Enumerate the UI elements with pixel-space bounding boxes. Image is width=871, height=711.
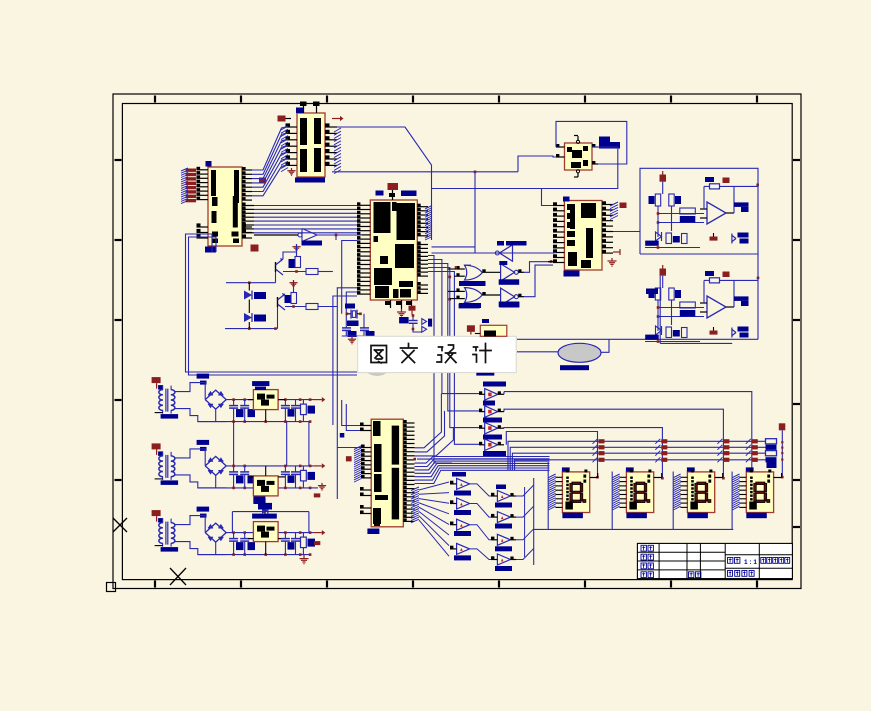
common rail vertical [533, 478, 535, 565]
crystal label bars [345, 304, 355, 309]
resistor low outline b [682, 328, 688, 338]
U4 right pins [602, 204, 613, 206]
capacitor C2 [345, 326, 347, 328]
DS3 digit 8 segments [697, 482, 706, 485]
wire row3 top link [232, 511, 309, 513]
wire inv4 output to display1 [498, 444, 504, 446]
frame corner square bottom-left [107, 583, 116, 592]
wire Q1 collector [283, 252, 297, 259]
diode pair D3 D4 [422, 319, 427, 325]
label blue L right of opamp [734, 296, 749, 301]
capacitor C1 maroon at U1 top-left [278, 116, 286, 122]
capacitor maroon above U3 [388, 183, 399, 190]
wire bus U2 to U3 eight horizontals [254, 205, 357, 207]
output capacitors T1 [284, 400, 286, 406]
title label scale [728, 558, 733, 564]
wire feedback loop [704, 185, 710, 187]
DS2 bottom-left blob [629, 502, 637, 510]
DS2 top body pins [630, 470, 633, 473]
DS4 left pins [739, 476, 746, 478]
wire bottom rail [645, 341, 700, 343]
DS2 label bar top [626, 467, 634, 471]
wire feed U4 pin1 from clock net [542, 189, 554, 206]
transistor symbol low [732, 235, 736, 238]
title label check row2 [641, 554, 646, 560]
drawing frame inner border [122, 104, 792, 580]
label bar left of block2 [646, 289, 658, 295]
power arrow output T1 [314, 399, 322, 401]
7-segment display DS1 body [562, 472, 589, 513]
DS4 left hatch [733, 474, 740, 478]
transistor Q1 [275, 262, 277, 272]
wire fan from U11 to transistor drivers [419, 482, 449, 490]
designator square left [340, 433, 345, 438]
wire CPU left long vertical 1 [333, 296, 357, 425]
transformer T3 [152, 510, 161, 516]
filter capacitors T2 left [233, 466, 235, 472]
resistor R horizontal at Q2 base [306, 304, 318, 310]
DS2 right dashes [647, 475, 650, 478]
U2 right pins upper [242, 169, 252, 171]
wire U5 output to bus [432, 147, 618, 189]
U2 right pins mid [242, 205, 254, 207]
wire ellipse right [601, 339, 609, 352]
U3 left pins [357, 204, 370, 206]
DS3 left hatch [674, 474, 681, 478]
U2 label bar bottom-left [205, 247, 216, 253]
wire from analog rail down-left [225, 282, 227, 284]
7-segment display DS4 body [746, 472, 773, 513]
wire U5 feedback box [556, 121, 627, 164]
U5 top clock pin with circle [577, 136, 579, 141]
crystal Y1 [347, 313, 351, 315]
wire block2 right vertical to bus [757, 278, 759, 339]
resistor low outline [666, 327, 672, 338]
maroon square above U2 right [259, 178, 266, 184]
wire into U11 left from top verticals [342, 400, 360, 426]
wire horizontal to opamp [658, 307, 704, 309]
U11 pin name text blobs [373, 421, 381, 436]
net label above T3 [197, 507, 210, 512]
digit driver inverter V2 [485, 406, 498, 418]
DS1 top body pins [566, 470, 569, 473]
wire bottom rail T3 [198, 554, 310, 556]
DS4 label bar top [746, 467, 754, 471]
logo caption blue text bar [560, 365, 589, 370]
7-segment display DS3 body [687, 472, 714, 513]
U3 top pin [392, 190, 394, 200]
transformer T1 bottom bar [161, 414, 179, 419]
frame tick marks bottom [154, 581, 156, 588]
wire ellipse net to measurement blocks [609, 338, 758, 340]
zener low [656, 326, 662, 335]
DS4 top body pins [750, 470, 753, 473]
wire U11 to segment bus nested elbows [415, 457, 456, 464]
title block column lines [658, 543, 660, 578]
driver transistor T5 [497, 491, 510, 502]
IC U5 oscillator body [565, 143, 593, 170]
watermark text tu wen she ji [371, 346, 387, 364]
U4 left pins [553, 205, 564, 207]
DS3 label bar top [687, 467, 695, 471]
wire into inverter U6A [254, 234, 298, 236]
frame break cross mark left border [113, 518, 127, 532]
U11 right lower hatch [411, 487, 419, 491]
wire horizontal bottom rail analog [225, 328, 278, 330]
rail junction dots T3 [232, 531, 235, 534]
DS2 left hatch [613, 474, 620, 478]
maroon dots on right vertical [781, 441, 783, 443]
svg-text:1 : 1: 1 : 1 [744, 559, 757, 566]
driver transistor T8 [497, 554, 510, 565]
DS4 pin name dashes [750, 477, 753, 479]
op-amp triangle [707, 296, 726, 318]
voltage regulator T3 [253, 522, 278, 542]
U8B label bar below [459, 303, 481, 308]
op-amp output stub [726, 212, 734, 214]
title label audit row3 [641, 563, 646, 569]
DS2 label bar bottom [626, 513, 647, 519]
maroon square right of U2 bottom [251, 245, 259, 252]
DS2 pin name dashes [630, 477, 633, 479]
wire inv3 output long to display2 [498, 427, 504, 429]
wire crystal caps common [342, 335, 364, 337]
capacitor maroon top [660, 269, 667, 276]
DS1 label bar top [562, 467, 570, 471]
title label approve row4 [641, 572, 646, 578]
wire CPU right verticals down [428, 256, 452, 464]
diode D5 between rows [262, 507, 268, 514]
DS4 digit 8 segments [756, 482, 765, 485]
DS1 left hatch [549, 474, 556, 478]
U11 left pins top [360, 425, 371, 427]
drawing frame outer border [113, 94, 801, 589]
DS1 digit 8 segments [572, 482, 581, 485]
wire U1 to right bus [337, 127, 432, 240]
DS1 right dashes [583, 475, 586, 478]
resistor network columns maroon [593, 439, 598, 444]
wire horizontal inverter line y=253 [432, 252, 554, 254]
digit driver inverter V4 [485, 439, 498, 451]
power stub at U4 right [613, 251, 620, 253]
op-amp input stubs [700, 208, 707, 210]
ground crystal [351, 337, 353, 340]
logo ellipse [558, 343, 601, 362]
output resistor T3 [301, 537, 307, 548]
wire transformer T1 to bridge [174, 383, 205, 400]
DS3 bottom-left blob [690, 502, 698, 510]
wire bridge T2 bottom stub [215, 475, 217, 488]
U9A label above [499, 261, 507, 265]
wire to U5 left pin [518, 156, 556, 172]
resistor low outline b [682, 234, 688, 244]
IC U4 latch body [564, 201, 602, 271]
wire resistor chain [657, 300, 659, 331]
wire horizontal feed Q1 [226, 282, 276, 284]
wire bottom rail T1 [198, 421, 310, 423]
U9A label below [499, 279, 520, 285]
ground above Q1 circuit [296, 244, 298, 247]
resistor network RN blue stack right [766, 439, 777, 444]
U9A output wire to U4 [518, 271, 524, 273]
frame tick marks right [793, 159, 800, 161]
ground at U4 bottom right [611, 258, 613, 261]
IC U10 small body [480, 325, 507, 336]
transistor symbol low [732, 329, 736, 332]
DS2 decimal point [647, 500, 650, 503]
inverter U6A triangle [302, 229, 317, 242]
DS1 decimal point [583, 500, 586, 503]
rail junction dots T2 [232, 465, 235, 468]
wire block2 bottom [660, 342, 732, 344]
wire inv2 output long to display3 [498, 411, 504, 413]
U5 pin name text blobs [567, 147, 572, 152]
segment select bus 4 lines [508, 441, 766, 470]
frame tick marks left [115, 159, 122, 161]
feedback resistor [710, 184, 720, 189]
capacitor maroon left of U10 [467, 325, 475, 332]
net label above T1 [197, 374, 210, 379]
resistor R vertical at Q2 [291, 293, 297, 304]
OR gate U8B [465, 288, 483, 303]
U4 right pin hatch top [610, 202, 618, 206]
power arrow output T2 [314, 465, 322, 467]
driver transistor T1 [457, 478, 470, 489]
U1 left pin hatch [281, 126, 288, 130]
DS4 bottom-left blob [749, 502, 757, 510]
digit driver inverter V3 [485, 422, 498, 434]
wire gate input stubs [448, 268, 457, 270]
label blue L right of opamp [734, 202, 749, 207]
DS1 label bar bottom [562, 513, 583, 519]
ground below U1 left [291, 168, 293, 171]
wire inverter U6A output right [317, 234, 362, 236]
wire CPU left pin to crystal [342, 241, 357, 314]
inverter U7A pointing left [500, 245, 513, 261]
U9B label below [499, 302, 520, 308]
DS1 left pins [555, 476, 562, 478]
title block right section lines [725, 554, 792, 556]
transistor Q2 [277, 297, 279, 307]
wire junction at 475,172 [474, 171, 477, 174]
segment bus 7 lines [455, 456, 550, 458]
wire driver bus line from U11 [417, 458, 515, 460]
caption bar below watermark [476, 373, 494, 376]
U1 label bar bottom [295, 178, 325, 183]
U2 designator blue square [206, 161, 212, 167]
maroon junction on driver bus [413, 458, 416, 461]
U1 pin name text blobs [300, 118, 307, 145]
resistor pair mid [680, 302, 696, 308]
driver transistor T6 [497, 512, 510, 523]
voltage regulator T2 [253, 476, 278, 496]
wire bridge T2 output rail [226, 465, 314, 467]
DS2 digit 8 segments [636, 482, 645, 485]
driver input stubs col1 [450, 483, 457, 485]
bridge rectifier T2 [205, 456, 226, 475]
wire bottom rail [645, 247, 700, 249]
wire U1 pin to U5 horizontal [332, 171, 518, 173]
DS3 pin name dashes [691, 477, 694, 479]
wire y=247 segment [432, 246, 476, 248]
wire into diode net [413, 329, 422, 332]
wire horizontal to opamp [658, 213, 704, 215]
wire U4 to block1 [613, 231, 640, 233]
maroon square right of U4 top [620, 203, 627, 209]
power arrow at U1 top-right [332, 118, 340, 120]
zener diode D1 [244, 291, 252, 300]
filter capacitors T1 left [233, 400, 235, 406]
ground below T3 [303, 555, 305, 557]
wire junction inverter out to vertical [335, 235, 337, 240]
DS3 left vertical wire [672, 472, 674, 530]
IC U1 latch body [297, 113, 325, 177]
zener diode D2 [244, 313, 252, 322]
zener low [656, 232, 662, 241]
driver transistor T7 [497, 534, 510, 545]
output capacitors T3 [284, 533, 286, 539]
wire ellipse feed upper [517, 338, 609, 340]
U5 label bar right [599, 137, 610, 143]
U4 left pins lower group [553, 252, 564, 254]
title label sheet name [761, 558, 766, 564]
wire block1 to block2 vertical [757, 254, 759, 278]
U2 pin name text blobs [211, 170, 216, 196]
wire junctions on verticals [449, 276, 452, 279]
label bars above U10 [459, 304, 480, 309]
U5 right pins [592, 146, 598, 148]
U8B output pin [482, 294, 500, 296]
U5 bottom clock pin with circle [576, 170, 579, 173]
resistor low outline [666, 233, 672, 244]
U11 right pins full [403, 422, 414, 424]
capacitor C4 below [399, 317, 409, 323]
DS4 label bar bottom [746, 513, 767, 519]
U2 left pins upper [197, 169, 209, 171]
resistor R vertical a [655, 194, 660, 206]
buffer U9A [501, 264, 515, 281]
wire vertical 475 down [474, 172, 476, 253]
wire common to displays [534, 528, 734, 530]
output capacitors T2 [284, 466, 286, 472]
DS4 left vertical wire [731, 472, 733, 530]
bridge rectifier T1 [205, 390, 226, 409]
wire bridge T3 bottom stub [215, 542, 217, 555]
ground below U3 bottom pin [401, 308, 403, 310]
driver transistor T4 [457, 543, 470, 554]
wire resistor chain [657, 206, 659, 237]
output resistor T1 [301, 404, 307, 415]
wire ellipse feed lower [517, 351, 558, 353]
U8B input pins [456, 290, 464, 292]
measure block frame [640, 168, 758, 254]
wire into U11 left mid [337, 447, 361, 449]
wire inter-row verticals a [233, 422, 235, 466]
wire bus U2 to U1 diagonals [252, 127, 286, 170]
digit driver inverter V1 [485, 389, 498, 401]
U1 right pin hatch [334, 128, 341, 132]
U3 right pins lower [417, 244, 428, 246]
buffer U9B [501, 288, 515, 305]
output resistor T2 [301, 470, 307, 481]
wire bridge T1 output rail [226, 399, 314, 401]
bridge rectifier T3 [205, 523, 226, 542]
driver input stubs col2 [491, 495, 497, 497]
7-segment display DS2 body [626, 472, 653, 513]
DS1 top-right pin [590, 477, 598, 479]
DS3 label bar bottom [687, 513, 708, 519]
resistor R vertical b [669, 194, 674, 206]
DS3 decimal point [708, 500, 711, 503]
U3 right pins bottom [417, 284, 428, 286]
DS2 top-right pin [654, 477, 662, 479]
wire transformer T3 to bridge [174, 516, 205, 533]
U11 left pins mid with hatch [361, 447, 371, 449]
DS4 right dashes [767, 475, 770, 478]
DS1 vertical to segment bundle [547, 462, 549, 472]
driver transistor T2 [457, 498, 470, 509]
DS1 pin name dashes [566, 477, 569, 479]
transformer T3 bottom bar [161, 547, 179, 552]
connector maroon pin pads left of U2 [186, 169, 197, 172]
U4 label bar bottom-left [564, 271, 580, 277]
U5 left pins [556, 146, 565, 148]
capacitor maroon right of U3 bottom [411, 308, 413, 310]
title label design row1 [641, 545, 646, 551]
ground right T2 [310, 487, 318, 489]
U1 designator blue square [296, 108, 303, 114]
IC U3 MCU body [370, 200, 417, 300]
U9B output wire [518, 296, 524, 298]
DS3 left pins [680, 476, 687, 478]
resistor pair mid [680, 208, 696, 214]
maroon square left of U11 [346, 456, 352, 461]
OR gate U8A [464, 264, 471, 266]
DS1 left vertical wire [547, 472, 549, 530]
U3 bottom pins [390, 300, 392, 308]
resistor R vertical b [669, 288, 674, 300]
DS3 top-right pin [715, 477, 723, 479]
wire U11 risers to inverters [415, 394, 442, 448]
U2 left pins lower [197, 226, 209, 228]
wire left vertical pair from U2 bottom [186, 234, 358, 372]
U1 top pins [303, 106, 305, 113]
filter capacitors T3 left [233, 533, 235, 539]
U4 designator blue square [563, 197, 570, 202]
transformer T2 bottom bar [161, 480, 179, 485]
op-amp output stub [726, 306, 734, 308]
U4 pin name text blobs [567, 204, 575, 210]
resistor R vertical a [655, 288, 660, 300]
capacitor maroon low [710, 237, 718, 241]
label bars near diode D5 [253, 498, 265, 504]
U6A label bar [302, 241, 323, 246]
ground above Q2 circuit [293, 280, 295, 283]
wire left verticals to psu top [331, 425, 333, 440]
title label number [689, 572, 694, 578]
rail junction dots T1 [232, 398, 235, 401]
wire bridge T1 bottom stub [215, 409, 217, 422]
IC U11 driver body [371, 419, 403, 527]
wire Q1 emitter down [275, 272, 277, 283]
DS2 left pins [619, 476, 626, 478]
maroon square near feedback [723, 178, 730, 184]
DS2 left vertical wire [611, 472, 613, 530]
U10 blue label [482, 319, 489, 323]
op-amp triangle [707, 202, 726, 224]
U8A output pin [482, 271, 500, 273]
U7A label bars [497, 241, 504, 246]
